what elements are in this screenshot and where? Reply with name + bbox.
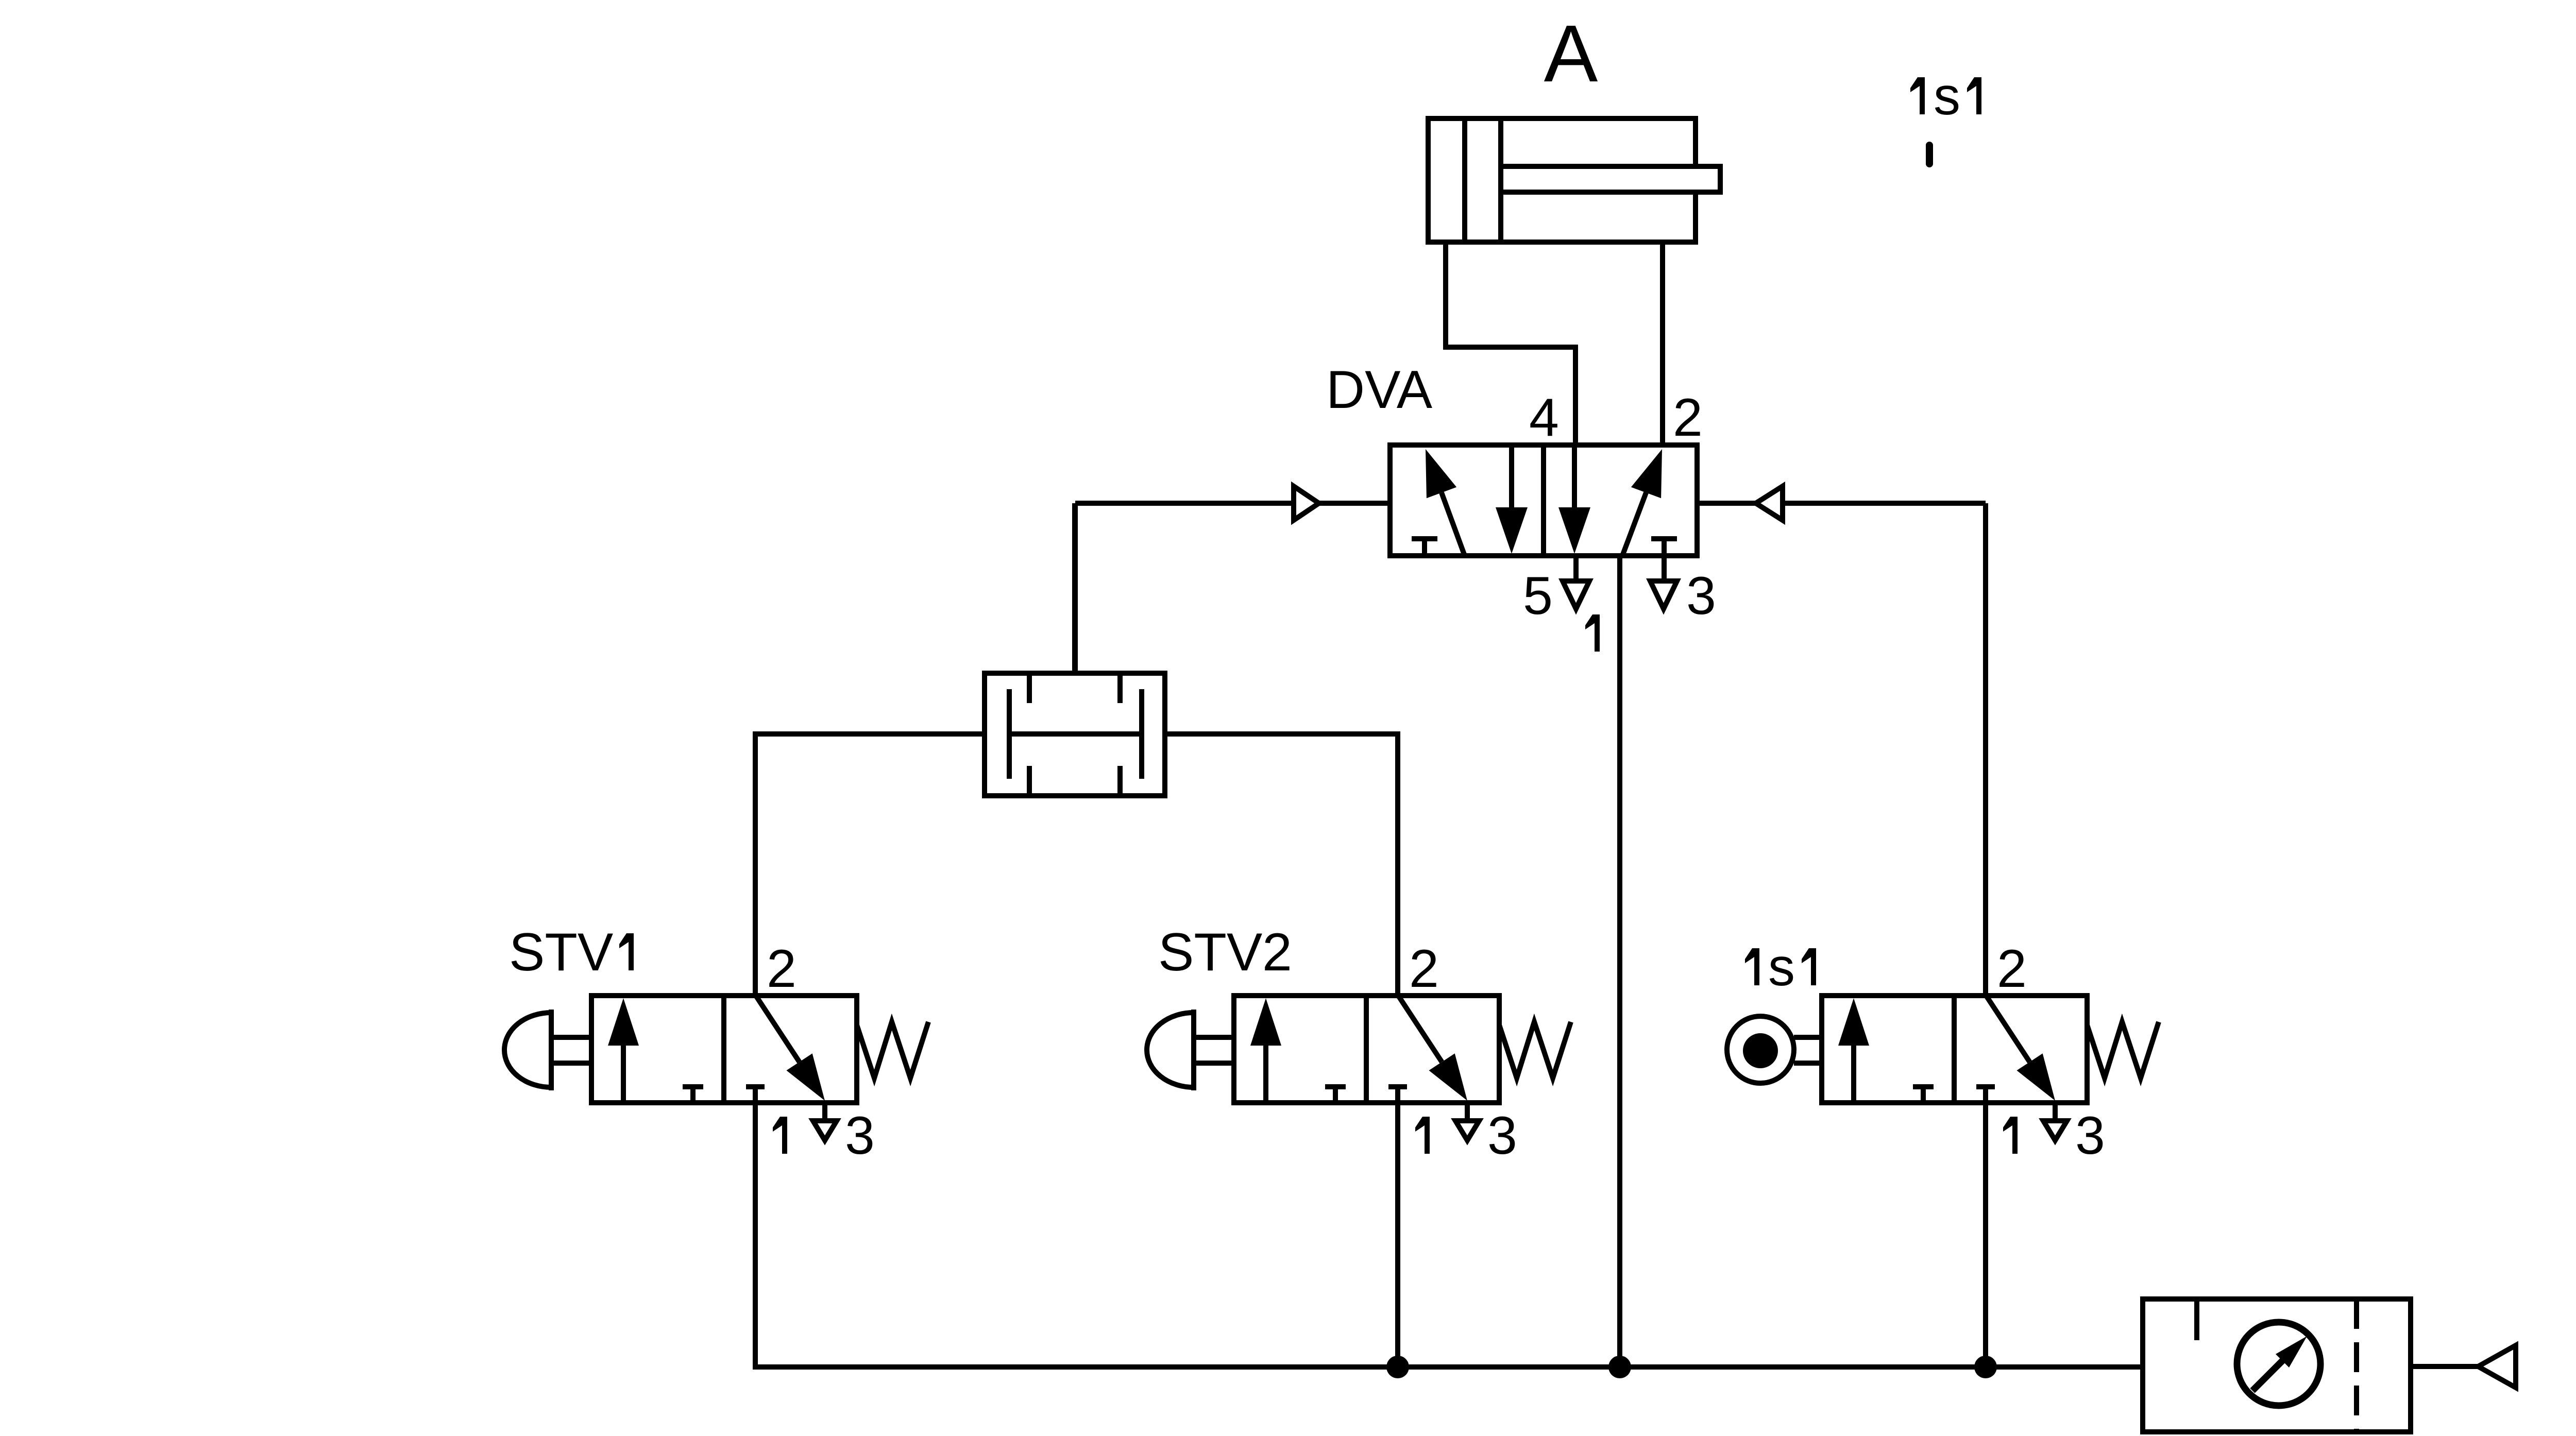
wire cylinder right port to valve port 2 [1660, 242, 1665, 445]
bus supply line [755, 1103, 2143, 1367]
valve 1s1 blocked port 3 (left box) [1913, 1084, 1934, 1089]
DVA left box arrow 1-4 [1442, 493, 1465, 556]
svg-text:DVA: DVA [1326, 360, 1433, 420]
svg-text:A: A [1544, 9, 1598, 99]
pushbutton actuator cap [549, 1010, 554, 1090]
valve 1s1 port 3 exhaust stem [2053, 1103, 2058, 1120]
valve STV1 flow arrow 1-2 (left box) [621, 1044, 626, 1103]
two-pressure valve left plate [1007, 689, 1012, 779]
valve 1s1 body left box [1822, 996, 2087, 1103]
air service unit stub [2194, 1299, 2199, 1340]
wire 1s1 port1 down [1983, 1103, 1988, 1367]
two-pressure valve body [985, 673, 1165, 796]
DVA left pilot line [1075, 501, 1294, 506]
valve STV2 port 3 exhaust triangle [1455, 1121, 1479, 1140]
valve STV1 blocked port 3 (left box) [683, 1084, 703, 1089]
pushbutton actuator stem [554, 1035, 591, 1040]
svg-text:3: 3 [845, 1106, 875, 1166]
STV1 pin 1 [773, 1117, 787, 1154]
DVA right box arrow 1-2 [1622, 493, 1646, 556]
two-pressure valve seats [1027, 673, 1032, 703]
valve 1s1 flow arrow 1-2 (left box) [1851, 1044, 1856, 1103]
STV2 pin 1 [1415, 1117, 1430, 1154]
valve DVA body [1390, 445, 1697, 556]
DVA port 1 supply line [1617, 556, 1622, 1367]
junction dot DVA1 [1608, 1356, 1631, 1378]
valve STV1 port 3 exhaust triangle [813, 1121, 837, 1140]
valve STV2 blocked port 3 (left box) [1325, 1084, 1346, 1089]
wire STV2 port1 down [1395, 1103, 1400, 1367]
roller actuator outer circle [1727, 1016, 1794, 1083]
valve STV2 box divider [1364, 996, 1369, 1103]
DVA right box arrow 4-5 [1572, 445, 1577, 510]
svg-text:2: 2 [767, 939, 796, 999]
valve STV1 flow arrow 2-3 (right box) [756, 996, 800, 1062]
junction dot STV2 [1386, 1356, 1409, 1378]
valve STV1 blocked port 1 (right box) [746, 1084, 765, 1089]
valve 1s1 return spring [2087, 1022, 2159, 1078]
limit switch 1s1 position tick [1926, 145, 1933, 164]
svg-text:5: 5 [1523, 566, 1553, 626]
svg-text:s: s [1768, 937, 1795, 997]
air service unit body [2143, 1299, 2411, 1432]
svg-text:2: 2 [1673, 388, 1703, 448]
air source outlet [2411, 1364, 2478, 1369]
valve STV1 (3/2 pushbutton valve) [504, 996, 928, 1140]
air service unit gauge [2237, 1322, 2320, 1406]
svg-text:STV: STV [509, 922, 613, 982]
cylinder A barrel [1428, 118, 1696, 242]
wire STV1 port2 to shuttle left [755, 734, 985, 996]
svg-text:3: 3 [1686, 566, 1716, 626]
svg-text:3: 3 [2075, 1106, 2105, 1166]
cylinder A rod [1501, 166, 1720, 192]
valve STV2 return spring [1499, 1022, 1571, 1078]
valve STV1 box divider [721, 996, 726, 1103]
svg-text:2: 2 [1997, 939, 2027, 999]
DVA right box blocked port 3 [1651, 536, 1677, 541]
svg-text:s: s [1934, 66, 1960, 126]
DVA left box arrow 2-3 [1509, 445, 1514, 510]
valve DVA divider [1541, 445, 1546, 556]
svg-text:STV: STV [1158, 922, 1262, 982]
DVA right pilot line [1697, 501, 1756, 506]
valve 1s1 flow arrow 2-3 (right box) [1986, 996, 2030, 1062]
valve STV2 body left box [1234, 996, 1499, 1103]
1s1 pin 1 [2003, 1117, 2018, 1154]
valve STV1 return spring [857, 1022, 928, 1078]
svg-text:2: 2 [1409, 939, 1439, 999]
two-pressure valve piston line [1009, 731, 1142, 737]
air service unit dashed separator [2354, 1299, 2359, 1432]
wire cylinder left port to valve port 4 [1446, 242, 1575, 445]
valve STV1 port 3 exhaust stem [822, 1103, 827, 1120]
roller actuator inner dot [1743, 1033, 1778, 1068]
two-pressure valve right plate [1139, 689, 1144, 779]
DVA pin 1 [1585, 614, 1600, 652]
pushbutton actuator cap [1191, 1010, 1196, 1090]
svg-text:3: 3 [1487, 1106, 1517, 1166]
valve 1s1 box divider [1952, 996, 1957, 1103]
valve STV2 flow arrow 2-3 (right box) [1398, 996, 1442, 1062]
cylinder A piston [1462, 118, 1467, 242]
wire shuttle output up to pilot [1072, 503, 1077, 673]
roller actuator stem [1794, 1035, 1822, 1040]
svg-text:4: 4 [1529, 388, 1559, 448]
valve STV2 flow arrow 1-2 (left box) [1263, 1044, 1268, 1103]
valve STV1 body left box [591, 996, 857, 1103]
valve 1s1 port 3 exhaust triangle [2043, 1121, 2067, 1140]
pushbutton actuator stem [1196, 1035, 1234, 1040]
DVA left box blocked port 5 [1412, 536, 1437, 541]
label 1s1 valve [1745, 948, 1759, 985]
wire STV2 port2 to shuttle right [1165, 734, 1398, 996]
label 1s1 top [1910, 77, 1925, 114]
DVA port 5 exhaust [1573, 556, 1579, 580]
DVA port 3 exhaust [1650, 581, 1677, 609]
valve STV2 blocked port 1 (right box) [1388, 1084, 1407, 1089]
svg-text:2: 2 [1262, 922, 1292, 982]
valve STV2 (3/2 pushbutton valve) [1147, 996, 1571, 1140]
valve 1s1 blocked port 1 (right box) [1976, 1084, 1995, 1089]
valve 1s1 (3/2 limit switch valve) [1727, 996, 2159, 1140]
valve STV2 port 3 exhaust stem [1465, 1103, 1470, 1120]
junction dot 1s1 [1974, 1356, 1997, 1378]
